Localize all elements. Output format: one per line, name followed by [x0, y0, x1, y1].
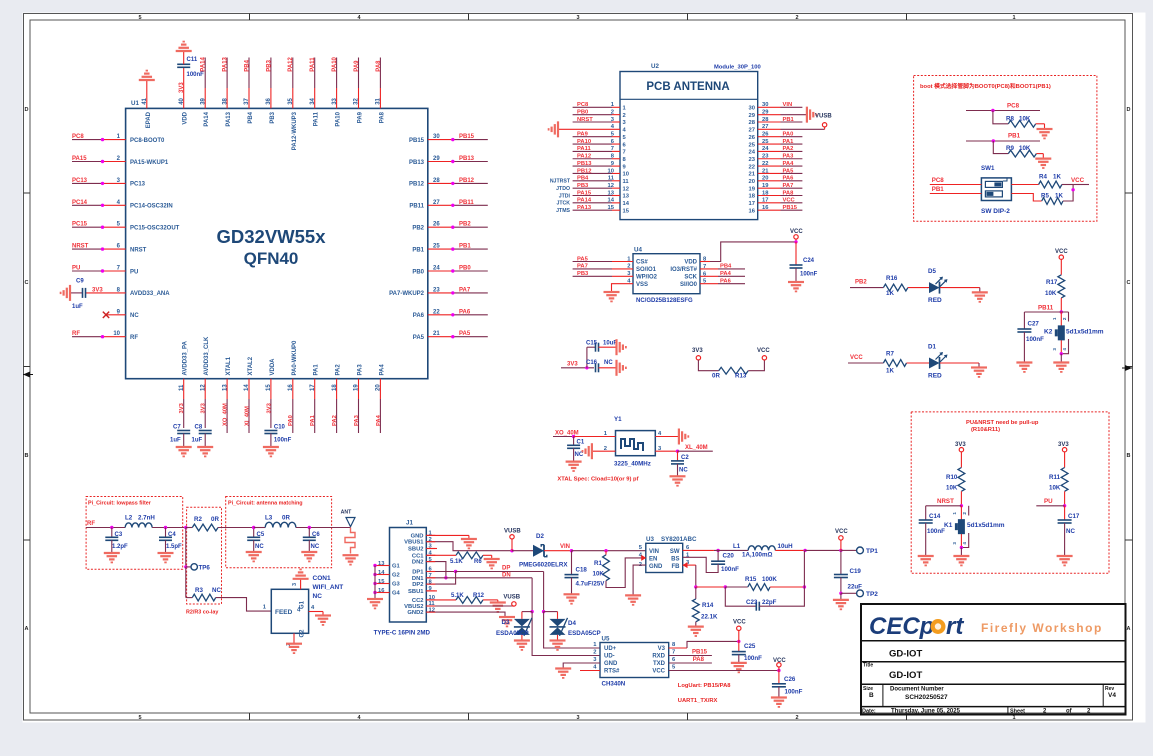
svg-text:PA6: PA6 — [413, 313, 425, 319]
wire net PA3 from U1 pin 19 — [354, 364, 364, 433]
svg-text:R4: R4 — [1039, 174, 1047, 181]
svg-text:PA9: PA9 — [358, 111, 364, 123]
svg-text:XL_40M: XL_40M — [685, 445, 708, 451]
wire net VCC from U2 pin 17 — [749, 198, 803, 207]
power symbol VCC at C25 — [733, 620, 746, 642]
wire net PA12 to U2 pin 8 — [573, 154, 627, 163]
J1 SBU1 stub — [426, 590, 437, 592]
note R2/R3 co-lay — [186, 610, 218, 616]
wire net VIN from U2 pin 30 — [749, 102, 803, 111]
wire net PB13 from U1 pin 29 — [409, 156, 488, 166]
svg-text:L1: L1 — [733, 543, 741, 550]
svg-text:PB4: PB4 — [248, 111, 254, 123]
svg-text:PA7: PA7 — [577, 264, 588, 270]
svg-text:PA5: PA5 — [413, 335, 425, 341]
power symbol 3V3 above R11 — [1058, 442, 1069, 468]
svg-text:27: 27 — [749, 128, 755, 134]
svg-text:C19: C19 — [850, 568, 862, 575]
J1 pin 11 VBUS2 label — [404, 601, 435, 610]
svg-text:PA12: PA12 — [288, 56, 294, 71]
resistor R8 10K — [993, 111, 1045, 128]
svg-text:4: 4 — [1062, 348, 1067, 351]
capacitor C25 100nF — [732, 641, 762, 663]
wire net PA10 to U1 pin 33 — [332, 56, 342, 126]
svg-text:C24: C24 — [803, 258, 815, 264]
svg-text:TP6: TP6 — [199, 565, 211, 572]
svg-text:PA7: PA7 — [459, 287, 471, 293]
IC U3 SY8201ABC body — [639, 536, 697, 573]
svg-text:PA7-WKUP2: PA7-WKUP2 — [389, 291, 425, 297]
svg-text:XO_40M: XO_40M — [223, 403, 229, 426]
U1 pin 8 AVDD33_ANA — [86, 287, 170, 297]
ground below C25 — [731, 663, 747, 672]
svg-text:C11: C11 — [187, 57, 198, 63]
svg-text:VDD: VDD — [684, 260, 697, 266]
connector J1 TYPE-C body — [374, 520, 431, 637]
capacitor C1 NC — [567, 437, 585, 462]
svg-text:PB12: PB12 — [577, 168, 592, 174]
red arrow into U3 EN — [641, 555, 646, 561]
svg-text:22: 22 — [749, 164, 755, 170]
svg-text:IO3/RST#: IO3/RST# — [670, 267, 697, 273]
svg-text:G2: G2 — [300, 629, 306, 638]
J1 pin 5 DN2 label — [412, 557, 433, 566]
svg-text:100nF: 100nF — [744, 655, 762, 662]
svg-text:PB12: PB12 — [459, 178, 475, 184]
J1 SBU2 stub — [426, 548, 437, 550]
svg-text:R2: R2 — [194, 516, 202, 523]
resistor R4 1K — [1011, 174, 1073, 188]
svg-text:PA13: PA13 — [577, 205, 592, 211]
J1 pin 10 CC2 label — [412, 595, 435, 604]
svg-text:J1: J1 — [406, 520, 413, 527]
U1 pin 40 VDD — [179, 97, 189, 124]
U1 pin 9 NC stub — [106, 309, 139, 319]
no-connect X on U1 pin 9 — [103, 312, 109, 318]
wire net PA5 to U4 pin 1 — [573, 256, 649, 265]
svg-text:PA3: PA3 — [358, 364, 364, 376]
svg-text:C7: C7 — [173, 425, 181, 431]
svg-text:16: 16 — [749, 208, 756, 214]
wire FEED pin 4 to ground — [309, 605, 323, 616]
wire net PB12 to U2 pin 10 — [573, 168, 629, 177]
wire net PC8 to U1 pin 1 — [72, 134, 165, 144]
svg-text:(R10&R11): (R10&R11) — [971, 427, 1000, 433]
resistor R17 10K — [1045, 275, 1065, 312]
svg-text:R7: R7 — [886, 351, 894, 358]
capacitor C10 100nF — [264, 425, 291, 448]
svg-text:DP: DP — [502, 566, 510, 572]
svg-text:PA1: PA1 — [783, 139, 795, 145]
wire net PB15 from U2 pin 16 — [749, 205, 803, 214]
wire net PB4 from U4 pin 7 — [670, 264, 745, 273]
svg-text:VDDA: VDDA — [270, 358, 276, 376]
svg-text:PA8: PA8 — [693, 657, 705, 663]
ground below C18 — [564, 594, 580, 603]
wire net PA13 to U2 pin 15 — [556, 205, 630, 214]
svg-text:NJTRST: NJTRST — [550, 179, 571, 185]
svg-text:10K: 10K — [1045, 290, 1057, 297]
svg-text:PA4: PA4 — [720, 271, 732, 277]
push button K2 5d1x5d1mm — [1044, 312, 1104, 363]
svg-text:PA4: PA4 — [379, 364, 385, 376]
wire net PB12 from U1 pin 28 — [409, 178, 488, 188]
svg-text:PA11: PA11 — [310, 57, 316, 72]
svg-text:1uF: 1uF — [72, 304, 83, 310]
svg-text:DP1: DP1 — [412, 570, 424, 576]
wire net VCC (boot) — [1071, 177, 1089, 192]
svg-text:XTAL2: XTAL2 — [248, 356, 254, 375]
svg-text:PB0: PB0 — [577, 109, 588, 115]
svg-text:PA5: PA5 — [783, 168, 795, 174]
svg-text:PB2: PB2 — [459, 222, 471, 228]
title block frame — [861, 604, 1126, 715]
svg-text:10K: 10K — [1019, 116, 1031, 123]
svg-text:D1: D1 — [928, 344, 936, 351]
svg-text:NC: NC — [255, 544, 264, 550]
ground above U1 pin 41 — [139, 71, 155, 109]
svg-text:VCC: VCC — [652, 669, 665, 675]
svg-text:PA0-WKUP0: PA0-WKUP0 — [292, 340, 298, 376]
wire net PA15 to U1 pin 2 — [72, 156, 169, 166]
resistor R5 1K — [1011, 185, 1073, 205]
svg-text:PA8: PA8 — [376, 60, 382, 72]
svg-text:NRST: NRST — [130, 247, 147, 253]
svg-text:C20: C20 — [723, 553, 735, 560]
svg-text:GND: GND — [411, 533, 424, 539]
ground after R9 — [1035, 154, 1051, 168]
capacitor C19 22uF — [834, 550, 862, 595]
capacitor C16 NC — [586, 360, 617, 372]
svg-text:C: C — [1127, 280, 1131, 286]
svg-text:10K: 10K — [1019, 145, 1031, 152]
wire U4 VDD to VCC — [684, 242, 796, 266]
capacitor C11 100nF — [177, 57, 204, 78]
svg-text:PU&NRST need be pull-up: PU&NRST need be pull-up — [966, 420, 1039, 426]
svg-text:PA12: PA12 — [577, 154, 591, 160]
svg-text:26: 26 — [749, 135, 756, 141]
wire Y1 pin 4 to ground — [655, 431, 679, 437]
wire VIN to U3 — [570, 549, 646, 552]
title block Size — [863, 686, 874, 699]
svg-text:NC: NC — [313, 593, 323, 600]
IC U1 GD32VW55x QFN40 body — [126, 100, 428, 379]
wire net NRST (pull-up) — [926, 498, 963, 507]
svg-text:PB12: PB12 — [409, 182, 425, 188]
svg-text:VCC: VCC — [783, 198, 796, 204]
svg-text:1uF: 1uF — [192, 438, 203, 444]
wire J1 GND2 to ground — [426, 612, 505, 617]
wire SW to L1 — [683, 549, 749, 552]
wire net PA8 from U2 pin 18 — [749, 190, 803, 199]
svg-text:14: 14 — [378, 570, 385, 576]
svg-text:2: 2 — [623, 113, 626, 119]
svg-text:VUSB: VUSB — [503, 595, 520, 601]
svg-text:D: D — [25, 107, 29, 113]
pull-up note dashed box — [911, 412, 1109, 573]
wire net PC8 (boot) — [966, 103, 1040, 113]
wire net PA3 from U2 pin 23 — [749, 154, 803, 163]
svg-text:R10: R10 — [946, 474, 958, 481]
svg-text:C1: C1 — [577, 440, 585, 446]
svg-text:XI_40M: XI_40M — [244, 406, 250, 426]
svg-text:ESDA05CP: ESDA05CP — [568, 630, 601, 637]
ground after D5 — [972, 288, 988, 302]
ground at J1 shield — [367, 599, 383, 608]
wire net PB1 (boot) — [966, 133, 1040, 143]
resistor R7 1K — [883, 351, 906, 375]
svg-text:D3: D3 — [502, 619, 510, 626]
wire net PB11 — [1024, 305, 1068, 314]
ground below C6 — [301, 552, 317, 561]
svg-text:PA14: PA14 — [204, 111, 210, 126]
svg-text:PC15: PC15 — [72, 222, 88, 228]
svg-text:C8: C8 — [195, 425, 203, 431]
power symbol VCC above R17 — [1055, 249, 1068, 275]
svg-text:SY8201ABC: SY8201ABC — [661, 536, 697, 543]
ground at FEED pin 4 — [315, 616, 331, 625]
resistor R11 10K — [1049, 468, 1068, 506]
wire net NRST to U1 pin 6 — [72, 244, 147, 254]
wire net PC14 to U1 pin 4 — [72, 200, 173, 210]
wire net PA4 from U1 pin 20 — [376, 364, 386, 433]
svg-text:3V3: 3V3 — [567, 362, 578, 368]
svg-text:VDD: VDD — [183, 111, 189, 124]
wire U4 VSS to ground — [612, 279, 649, 293]
svg-text:CECp: CECp — [869, 613, 934, 640]
wire net PA5 from U2 pin 21 — [749, 168, 803, 177]
svg-text:Date:: Date: — [862, 709, 876, 715]
ground at U4 VSS — [604, 292, 620, 301]
wire net 3V3 from U1 pin 11 — [179, 340, 189, 428]
svg-text:JTMS: JTMS — [556, 208, 570, 214]
ground after D1 — [971, 363, 987, 377]
svg-text:VIN: VIN — [783, 102, 793, 108]
capacitor C7 1uF — [170, 425, 190, 448]
svg-text:U1: U1 — [131, 100, 139, 107]
svg-text:C18: C18 — [576, 567, 588, 574]
J1 pin 13 G1 — [373, 561, 400, 570]
svg-text:UART1_TX/RX: UART1_TX/RX — [678, 698, 718, 704]
wire net PB13 to U2 pin 9 — [573, 161, 627, 170]
power symbol VCC at R13 — [748, 348, 770, 371]
svg-text:3225_40MHz: 3225_40MHz — [614, 461, 651, 468]
svg-text:JTDI: JTDI — [559, 193, 571, 199]
svg-text:DN1: DN1 — [412, 576, 424, 582]
J1 pin 15 G3 — [373, 579, 400, 588]
wire net PB1 from U1 pin 25 — [412, 244, 487, 254]
svg-text:PA9: PA9 — [354, 60, 360, 72]
svg-text:PA1: PA1 — [310, 414, 316, 426]
svg-text:NRST: NRST — [577, 117, 593, 123]
resistor R16 1K — [883, 275, 908, 297]
ground at U5 GND — [555, 669, 571, 678]
svg-text:TXD: TXD — [653, 661, 666, 667]
svg-text:C17: C17 — [1068, 513, 1080, 520]
ground right of C16 — [617, 360, 626, 376]
svg-text:PA0: PA0 — [783, 132, 794, 138]
svg-text:R2/R3 co-lay: R2/R3 co-lay — [186, 610, 218, 616]
svg-text:SO/IO1: SO/IO1 — [636, 267, 657, 273]
svg-text:R1: R1 — [594, 560, 602, 567]
svg-text:1K: 1K — [1053, 174, 1061, 181]
ground after R8 — [1037, 124, 1053, 139]
inductor L3 0R — [254, 515, 351, 530]
note XTAL spec — [557, 477, 638, 483]
wire net 3V3 to C15/C16 — [561, 347, 596, 369]
capacitor C24 100nF — [790, 242, 818, 282]
svg-text:PB15: PB15 — [409, 138, 425, 144]
wire VUSB from U2 pin 27 — [749, 124, 825, 133]
svg-text:G2: G2 — [392, 573, 400, 579]
title block text GD-IOT row2 — [889, 670, 922, 681]
wire U5 GND to ground — [563, 663, 600, 669]
wire net PB0 to U2 pin 2 — [573, 109, 626, 118]
svg-text:JTCK: JTCK — [556, 201, 570, 207]
svg-text:2.7nH: 2.7nH — [138, 515, 155, 522]
svg-text:C9: C9 — [76, 278, 84, 284]
svg-text:3V3: 3V3 — [179, 402, 185, 413]
svg-text:PA11: PA11 — [314, 111, 320, 126]
wire net PA9 to U2 pin 5 — [573, 132, 627, 141]
J1 pin 2 VBUS1 label — [404, 537, 432, 546]
svg-text:PB15: PB15 — [692, 650, 708, 656]
svg-text:QFN40: QFN40 — [244, 249, 299, 268]
power symbol VUSB at J1 — [504, 529, 521, 551]
svg-text:5.1K: 5.1K — [450, 559, 463, 565]
ground below C10 — [263, 447, 279, 456]
svg-text:PC14-OSC32IN: PC14-OSC32IN — [130, 204, 173, 210]
svg-text:VCC: VCC — [733, 620, 746, 626]
ground after R6 — [484, 555, 500, 568]
wire net PB3 to U4 pin 3 — [573, 271, 658, 280]
svg-text:3V3: 3V3 — [266, 402, 272, 413]
J1 pin 7 DN1 label — [412, 573, 432, 582]
boot mode select dashed box — [914, 76, 1097, 222]
ground above C11 — [176, 42, 192, 65]
svg-text:Y1: Y1 — [614, 416, 622, 423]
svg-text:EPAD: EPAD — [146, 111, 152, 128]
wire net PA2 from U1 pin 18 — [332, 364, 342, 433]
svg-text:5d1x5d1mm: 5d1x5d1mm — [967, 522, 1005, 529]
svg-text:NC: NC — [679, 468, 688, 474]
svg-text:NRST: NRST — [72, 244, 89, 250]
wire net XL_40M from Y1 pin 3 — [655, 445, 713, 453]
svg-text:5: 5 — [138, 715, 141, 721]
svg-text:U4: U4 — [634, 247, 642, 254]
svg-text:PA15: PA15 — [577, 190, 592, 196]
svg-text:PA14: PA14 — [577, 198, 592, 204]
wire net PA4 from U2 pin 22 — [749, 161, 803, 170]
svg-text:1uF: 1uF — [170, 438, 181, 444]
svg-text:SW: SW — [670, 549, 680, 555]
svg-text:SCK: SCK — [684, 275, 697, 281]
svg-text:DN2: DN2 — [412, 560, 424, 566]
svg-text:PB15: PB15 — [783, 205, 798, 211]
svg-text:0R: 0R — [712, 373, 720, 380]
wire net PA6 from U4 pin 5 — [680, 279, 745, 288]
ground below D3 — [514, 641, 530, 650]
resistor R14 22.1K — [692, 587, 718, 627]
svg-text:PC13: PC13 — [72, 178, 88, 184]
wire net PB0 from U1 pin 24 — [412, 266, 487, 276]
svg-text:VBUS1: VBUS1 — [404, 540, 424, 546]
svg-text:PC8-BOOT0: PC8-BOOT0 — [130, 138, 165, 144]
ground below C26 — [771, 698, 787, 707]
capacitor C4 1.5pF — [159, 528, 182, 554]
wire DP to U5 UD+ — [542, 572, 600, 649]
title block Document Number — [890, 687, 948, 702]
svg-text:100nF: 100nF — [927, 528, 945, 535]
capacitor C15 10uF — [586, 341, 617, 352]
svg-text:GND: GND — [649, 564, 663, 570]
svg-text:RED: RED — [928, 297, 942, 304]
ground below C17 — [1057, 556, 1073, 565]
svg-text:PB3: PB3 — [270, 111, 276, 123]
wire net PA10 to U2 pin 6 — [573, 139, 627, 148]
svg-text:EN: EN — [649, 557, 657, 563]
svg-text:13: 13 — [378, 561, 385, 567]
svg-text:NRST: NRST — [937, 498, 954, 505]
svg-text:PA2: PA2 — [783, 146, 794, 152]
wire net XO_40M from U1 pin 13 — [222, 356, 232, 433]
power symbol VCC at C26 — [773, 658, 786, 671]
svg-text:PB3: PB3 — [577, 183, 589, 189]
svg-text:R9: R9 — [1006, 145, 1014, 152]
svg-text:RF: RF — [72, 331, 80, 337]
ground below C8 — [197, 447, 213, 456]
capacitor C6 NC — [303, 528, 321, 553]
wire net PC8 to U2 pin 1 — [573, 102, 627, 111]
svg-text:PB2: PB2 — [412, 226, 424, 232]
svg-text:VCC: VCC — [790, 229, 803, 235]
svg-text:0R: 0R — [282, 515, 290, 522]
svg-text:23: 23 — [749, 157, 756, 163]
svg-text:RTS#: RTS# — [604, 669, 620, 675]
push button K1 5d1x5d1mm — [944, 506, 1005, 556]
wire Y1 pin 2 to ground — [592, 446, 616, 452]
J1 pin 6 DP1 label — [412, 567, 432, 576]
wire net PB15 from U5 RXD — [669, 650, 712, 656]
svg-text:3V3: 3V3 — [201, 402, 207, 413]
svg-text:PA10: PA10 — [336, 111, 342, 126]
wire FEED pin 2 to ground — [286, 633, 294, 646]
ground below C5 — [246, 552, 262, 561]
svg-text:1: 1 — [1012, 15, 1015, 21]
wire net RF to lowpass — [86, 521, 125, 529]
svg-text:C: C — [25, 280, 29, 286]
capacitor C14 100nF — [919, 506, 945, 556]
wire U5 V3 to C25 — [669, 640, 741, 648]
wire net PA8 to U1 pin 31 — [376, 58, 386, 124]
ground below FEED — [286, 644, 302, 653]
svg-text:TP1: TP1 — [866, 548, 878, 555]
wire VCC output node — [803, 549, 856, 552]
svg-text:4: 4 — [962, 542, 967, 545]
J1 pin 4 CC1 label — [412, 551, 433, 560]
svg-text:CC2: CC2 — [412, 598, 424, 604]
svg-text:Pi_Circuit: antenna matching: Pi_Circuit: antenna matching — [228, 501, 303, 507]
svg-text:PA13: PA13 — [223, 56, 229, 71]
svg-text:PA4: PA4 — [783, 161, 795, 167]
svg-text:D: D — [1127, 107, 1131, 113]
J1 pin 16 G4 — [373, 588, 400, 597]
wire net DP — [426, 562, 543, 585]
wire net PA1 from U2 pin 25 — [749, 139, 803, 148]
wire J1 shield to ground — [374, 566, 376, 600]
ground below antenna — [343, 555, 359, 564]
svg-text:19: 19 — [749, 186, 756, 192]
